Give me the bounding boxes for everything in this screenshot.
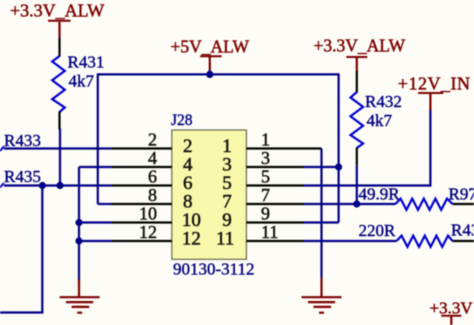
- svg-text:1: 1: [261, 130, 270, 150]
- svg-text:+3.3V_ALW: +3.3V_ALW: [314, 36, 406, 56]
- svg-text:R431: R431: [68, 53, 105, 72]
- svg-text:R433: R433: [4, 131, 41, 150]
- svg-text:+3.3V_ALW: +3.3V_ALW: [10, 1, 104, 21]
- svg-text:4: 4: [148, 148, 157, 168]
- svg-text:9: 9: [261, 204, 270, 224]
- svg-text:220R: 220R: [359, 221, 397, 240]
- svg-text:R435: R435: [4, 167, 41, 186]
- svg-text:6: 6: [148, 167, 157, 187]
- svg-text:11: 11: [261, 222, 278, 242]
- svg-text:R971: R971: [449, 185, 474, 204]
- svg-text:4k7: 4k7: [69, 72, 95, 91]
- svg-text:5: 5: [261, 167, 270, 187]
- svg-text:11: 11: [216, 229, 234, 250]
- svg-text:J28: J28: [171, 112, 193, 129]
- svg-text:3: 3: [261, 148, 270, 168]
- svg-text:12: 12: [182, 229, 201, 250]
- svg-text:4k7: 4k7: [367, 111, 393, 130]
- svg-text:7: 7: [261, 185, 270, 205]
- svg-text:49.9R: 49.9R: [359, 185, 401, 204]
- svg-text:+12V_IN: +12V_IN: [398, 74, 471, 94]
- svg-text:+5V_ALW: +5V_ALW: [171, 37, 250, 57]
- svg-text:90130-3112: 90130-3112: [173, 260, 255, 279]
- svg-text:R432: R432: [365, 92, 402, 111]
- svg-text:12: 12: [139, 222, 157, 242]
- svg-text:8: 8: [148, 185, 157, 205]
- svg-text:10: 10: [139, 204, 157, 224]
- svg-text:+3.3V: +3.3V: [430, 299, 474, 318]
- svg-text:R436: R436: [451, 221, 474, 240]
- svg-text:2: 2: [148, 130, 157, 150]
